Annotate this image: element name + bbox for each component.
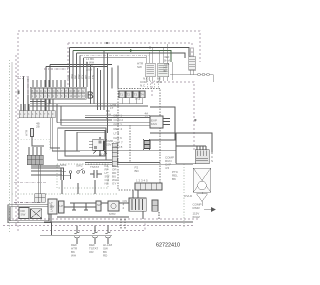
svg-text:S: S — [211, 159, 213, 163]
svg-text:T2: T2 — [127, 93, 131, 97]
svg-text:120V: 120V — [105, 143, 112, 147]
svg-text:CMP 7: CMP 7 — [114, 141, 123, 145]
svg-text:NEU 8: NEU 8 — [114, 145, 123, 149]
svg-text:1 2 3 4 5: 1 2 3 4 5 — [136, 179, 148, 183]
svg-text:SW2: SW2 — [76, 164, 83, 168]
svg-text:62722410: 62722410 — [156, 243, 180, 249]
svg-text:LT 5: LT 5 — [114, 132, 120, 136]
svg-text:T1: T1 — [120, 93, 124, 97]
svg-text:T4: T4 — [140, 93, 144, 97]
svg-text:SW: SW — [50, 205, 55, 209]
svg-text:WH: WH — [71, 253, 76, 257]
svg-text:TSTAT: TSTAT — [90, 165, 99, 169]
svg-text:2B: 2B — [36, 125, 40, 129]
svg-text:SW: SW — [21, 213, 26, 217]
svg-text:1A: 1A — [145, 115, 149, 119]
svg-text:SW: SW — [97, 203, 102, 207]
svg-text:GY: GY — [112, 182, 116, 186]
svg-text:FAN: FAN — [151, 122, 157, 126]
svg-text:T3: T3 — [134, 93, 138, 97]
svg-text:SW: SW — [137, 65, 142, 69]
svg-text:R: R — [40, 90, 42, 93]
svg-text:P-2: P-2 — [136, 97, 141, 101]
svg-text:B: B — [87, 90, 94, 102]
svg-text:MTR: MTR — [109, 212, 116, 216]
svg-text:G: G — [82, 90, 84, 93]
svg-text:NE: NE — [105, 182, 109, 186]
svg-text:FAN 6: FAN 6 — [114, 136, 123, 140]
svg-text:RSIR: RSIR — [193, 206, 201, 210]
svg-text:60HZ: 60HZ — [193, 215, 201, 219]
svg-text:TN: TN — [91, 75, 95, 79]
svg-text:R: R — [78, 90, 80, 93]
svg-text:BK: BK — [172, 177, 176, 181]
svg-text:LT: LT — [110, 106, 113, 110]
svg-text:4.5: 4.5 — [165, 166, 170, 170]
svg-text:SW1: SW1 — [60, 163, 67, 167]
svg-text:HTR: HTR — [25, 129, 29, 136]
svg-text:WH: WH — [157, 80, 162, 84]
svg-text:RLY: RLY — [99, 153, 105, 157]
svg-text:O: O — [53, 90, 55, 93]
svg-text:COM 2: COM 2 — [114, 118, 124, 122]
svg-text:DEF 1: DEF 1 — [114, 114, 123, 118]
svg-text:BK: BK — [164, 69, 168, 73]
svg-text:OVLD: OVLD — [184, 194, 193, 198]
svg-text:AUX: AUX — [86, 68, 92, 72]
svg-text:REF 4: REF 4 — [114, 127, 123, 131]
svg-text:FRZ 3: FRZ 3 — [114, 123, 123, 127]
svg-text:G: G — [44, 90, 46, 93]
svg-text:N.C.: N.C. — [140, 84, 146, 88]
svg-text:LP: LP — [60, 204, 64, 208]
